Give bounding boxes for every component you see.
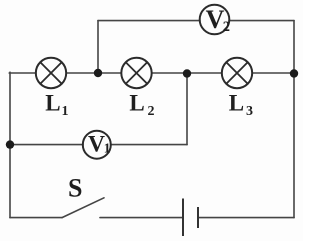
svg-text:L: L [229, 91, 244, 116]
node C junction dot [290, 69, 298, 77]
svg-text:V: V [206, 5, 225, 34]
battery short plate [197, 207, 199, 228]
svg-text:L: L [45, 91, 60, 116]
label L3 [229, 91, 253, 119]
wire bottom middle to battery [100, 217, 182, 219]
svg-text:S: S [68, 173, 82, 202]
wire V1 branch vertical [186, 74, 188, 145]
label L1 [45, 91, 68, 119]
wire V2 branch top right [229, 20, 294, 22]
node B junction dot [183, 69, 191, 77]
wire bottom left [10, 217, 62, 219]
lamp L1 [36, 58, 66, 88]
wire left rail [9, 72, 11, 217]
voltmeter V1 [83, 131, 111, 159]
wire right rail [293, 21, 295, 218]
wire V1 branch left [10, 144, 83, 146]
wire battery to right corner [199, 217, 294, 219]
svg-text:1: 1 [62, 104, 69, 119]
wire V1 branch right [111, 144, 187, 146]
voltmeter V2 [200, 5, 230, 35]
node A junction dot [94, 69, 102, 77]
lamp L2 [121, 58, 151, 88]
lamp L3 [222, 58, 252, 88]
wire L2 to L3 through node B [152, 72, 222, 74]
svg-text:2: 2 [223, 19, 230, 35]
svg-text:2: 2 [148, 104, 155, 119]
svg-text:1: 1 [104, 140, 111, 155]
wire V2 branch vertical [97, 21, 99, 73]
svg-text:3: 3 [246, 104, 253, 119]
wire L1 to L2 through node A [66, 72, 121, 74]
battery long plate [182, 199, 184, 237]
node D junction dot [6, 140, 14, 148]
switch S blade [62, 198, 104, 218]
svg-text:V: V [88, 132, 105, 158]
wire V2 branch top left [98, 20, 200, 22]
label L2 [129, 91, 154, 119]
svg-text:L: L [129, 91, 144, 116]
wire top-left to L1 [9, 72, 36, 74]
wire L3 to right rail [252, 72, 294, 74]
